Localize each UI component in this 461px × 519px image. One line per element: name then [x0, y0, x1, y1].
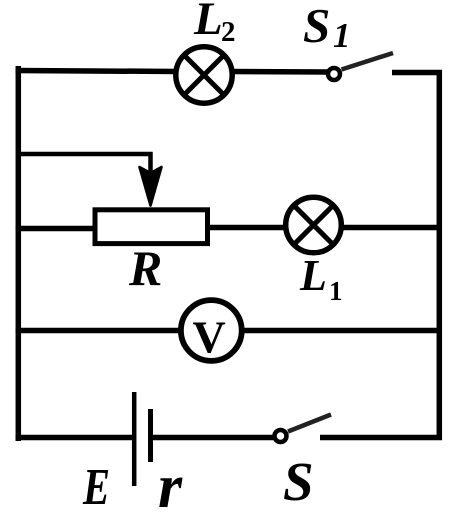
- svg-text:L: L: [299, 251, 327, 300]
- wire bottom middle segment: [153, 435, 274, 441]
- svg-text:L: L: [193, 0, 223, 45]
- label L2: [193, 0, 236, 48]
- svg-text:2: 2: [221, 16, 236, 48]
- label S1: [303, 0, 351, 55]
- wire bottom right segment: [320, 435, 442, 441]
- svg-text:r: r: [158, 453, 183, 519]
- wire left vertical: [16, 66, 22, 441]
- wire branch2 middle segment: [210, 225, 286, 231]
- label E: [82, 459, 110, 516]
- wire wiper arm horizontal: [16, 152, 153, 157]
- svg-text:1: 1: [329, 276, 343, 306]
- svg-text:E: E: [82, 459, 110, 516]
- rheostat R: [95, 210, 208, 244]
- label R: [128, 240, 162, 296]
- battery short plate: [148, 409, 153, 462]
- wire wiper arm vertical: [148, 152, 153, 182]
- wire branch2 right segment: [341, 225, 442, 231]
- switch S: [275, 415, 332, 443]
- wire top left segment: [16, 71, 179, 72]
- label r: [158, 453, 183, 519]
- label L1: [299, 251, 343, 306]
- arrowhead on wiper: [140, 167, 162, 206]
- wire right vertical: [437, 70, 443, 440]
- wire top middle segment: [232, 69, 328, 75]
- label S: [283, 451, 314, 512]
- svg-text:V: V: [193, 312, 226, 363]
- svg-text:S: S: [303, 0, 330, 53]
- switch S1: [328, 53, 393, 80]
- wire top right segment: [392, 70, 442, 76]
- lamp L2: [176, 47, 232, 103]
- svg-text:S: S: [283, 451, 314, 512]
- wire branch2 left segment: [16, 226, 96, 232]
- voltmeter V: [181, 300, 242, 362]
- lamp L1: [286, 197, 342, 253]
- wire branch3 left segment: [16, 328, 183, 334]
- svg-text:1: 1: [333, 16, 351, 55]
- battery long plate: [132, 392, 137, 486]
- wire branch3 right segment: [241, 328, 442, 334]
- wire bottom left segment: [16, 435, 133, 441]
- svg-text:R: R: [128, 240, 162, 296]
